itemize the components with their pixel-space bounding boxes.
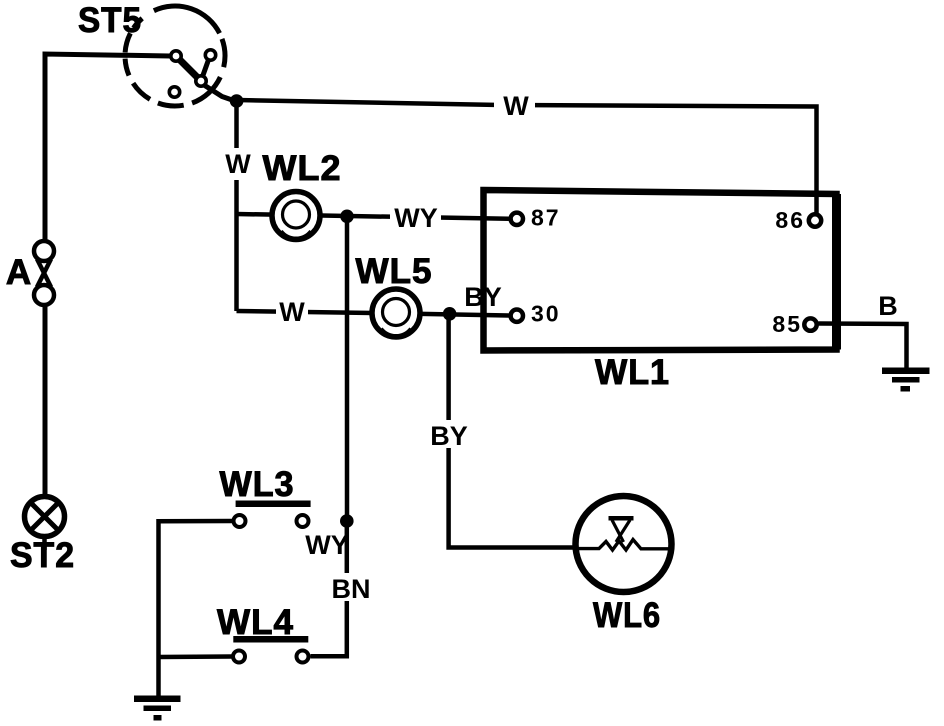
svg-text:87: 87 [531,205,561,231]
svg-text:WL6: WL6 [593,596,661,635]
label W top wire [494,91,535,121]
node junction dot WL3 right [340,514,354,528]
wire top W run from ST5 junction to 86 [237,100,817,213]
node junction dot ST5 out [230,94,244,108]
svg-text:B: B [878,291,898,321]
label W WL5 row [276,297,308,327]
label W vertical branch [224,148,252,180]
lamp WL5 [372,289,420,337]
svg-text:85: 85 [772,311,802,337]
svg-text:WY: WY [305,530,349,560]
wire pin 85 to ground B [819,324,907,370]
relay WL1 box [484,190,837,351]
lamp ST2 [25,497,65,551]
svg-text:ST2: ST2 [10,536,75,575]
svg-text:W: W [225,149,251,179]
wire WL2 row to pin 87 [237,214,509,219]
wire left feed horizontal to ST5 [45,54,170,241]
pin 87 [511,213,523,225]
svg-text:WY: WY [394,203,438,233]
wire left vertical fuse to ST2 [43,306,48,497]
svg-text:WL2: WL2 [263,149,342,188]
wire WL4 row left [159,654,232,659]
svg-text:W: W [503,91,529,121]
svg-text:BN: BN [332,574,371,604]
ground left [134,696,181,721]
svg-text:WL3: WL3 [220,465,295,504]
node junction dot WL2 right [340,210,354,224]
svg-text:A: A [6,253,32,292]
node junction dot BY branch [443,307,457,321]
switch ST5 rotary (dashed circle) [125,6,236,106]
label BY at WL6 branch [430,420,469,451]
wire vertical W branch from junction to WL2 level [234,100,239,311]
svg-text:W: W [279,297,305,327]
wire WL5 row to pin 30 [237,311,509,316]
label BN [330,573,372,604]
switch WL3 [234,501,311,528]
switch WL4 [233,636,309,663]
svg-text:WL5: WL5 [356,252,433,291]
svg-text:ST5: ST5 [78,1,142,40]
pin 30 [511,310,523,322]
svg-text:WL1: WL1 [595,353,670,392]
fuse A [34,241,54,305]
sender WL6 [576,496,673,592]
svg-text:30: 30 [531,301,561,327]
svg-text:86: 86 [775,207,805,233]
wire BY branch down to WL6 [449,314,576,548]
lamp WL2 [272,192,320,240]
wire BN segment down to WL4 [311,521,347,656]
svg-text:WL4: WL4 [217,603,294,642]
label WY relay row [390,203,441,233]
ground right [882,368,930,392]
pin 86 [809,214,821,226]
svg-text:BY: BY [430,421,468,451]
wire WL3 row left [159,521,233,696]
pin 85 [804,318,816,330]
wire vertical WY branch WL2 junction down to WL3 [345,216,350,521]
